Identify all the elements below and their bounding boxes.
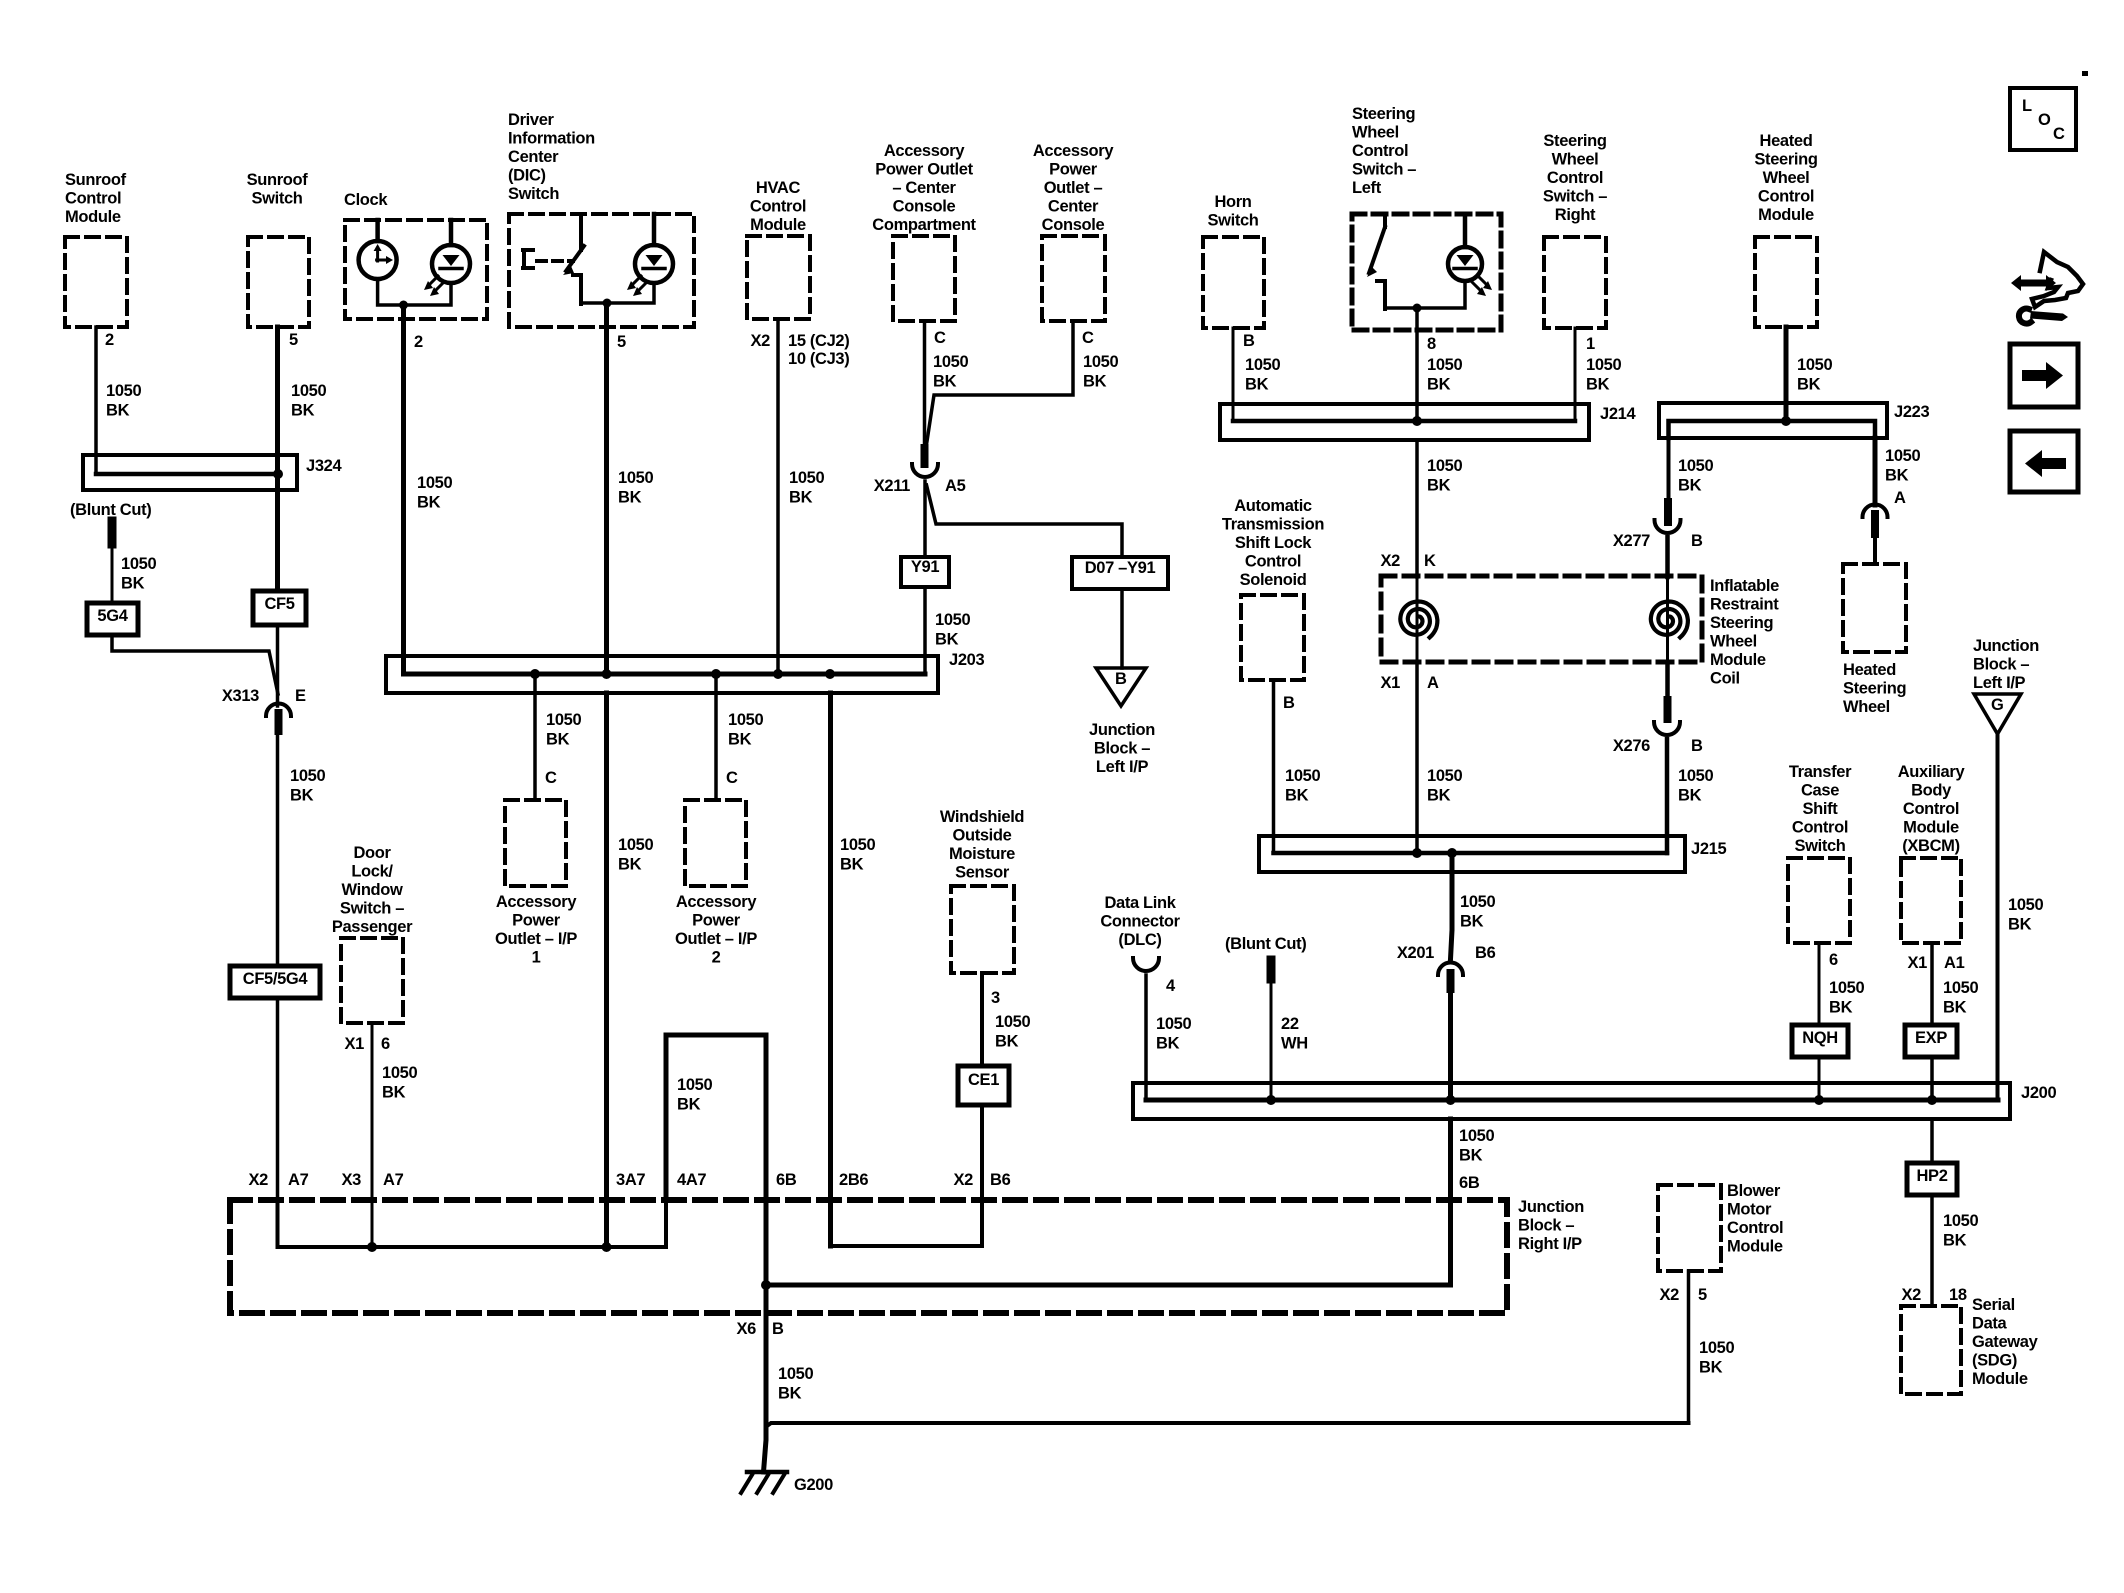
module label: Blower Motor Control Module [1727,1182,1783,1256]
svg-text:BK: BK [1885,467,1909,485]
module label: Accessory Power Outlet - Center Console Compartment [872,142,976,234]
svg-text:X2: X2 [751,332,771,350]
svg-text:C: C [1082,329,1094,347]
svg-text:BK: BK [1586,376,1610,394]
svg-text:Shift Lock: Shift Lock [1235,534,1312,552]
svg-text:BK: BK [546,731,570,749]
wire label 1050 BK (HVAC) [789,469,824,507]
wire: transfer case switch pin 6 to NQH [1818,943,1821,1025]
svg-text:BK: BK [121,575,145,593]
svg-text:5G4: 5G4 [97,607,128,625]
wire label 1050 BK (transfer case) [1829,979,1864,1017]
module label: Sunroof Switch [247,171,309,208]
svg-text:Module: Module [1758,206,1814,224]
pin label 2B6 [839,1171,868,1189]
svg-text:BK: BK [1699,1359,1723,1377]
svg-text:Wheel: Wheel [1352,124,1399,142]
DIC switch symbol [523,214,584,304]
wire: SWCS-right pin 1 to J214 [1574,328,1577,421]
coil spiral left [1400,602,1437,638]
svg-text:1050: 1050 [840,836,875,854]
svg-text:X2: X2 [954,1171,974,1189]
svg-text:X2: X2 [1660,1286,1680,1304]
svg-text:Switch: Switch [251,190,302,208]
svg-text:Case: Case [1801,782,1839,800]
svg-text:Compartment: Compartment [872,216,976,234]
svg-text:BK: BK [1829,999,1853,1017]
svg-text:J214: J214 [1600,405,1636,423]
svg-text:4: 4 [1166,977,1176,995]
svg-text:BK: BK [935,631,959,649]
connector A stub [1871,514,1879,534]
DLC connector arc [1133,958,1159,971]
svg-text:Control: Control [1727,1219,1783,1237]
J223 label [1894,403,1929,421]
svg-text:6: 6 [381,1035,390,1053]
connector X211 stub [921,448,929,464]
wire: heated module to J223 [1784,327,1789,421]
svg-text:D07 –Y91: D07 –Y91 [1085,559,1156,577]
svg-text:BK: BK [677,1096,701,1114]
svg-text:1050: 1050 [291,382,326,400]
J214 label [1600,405,1636,423]
svg-text:Control: Control [1903,800,1959,818]
wire label 1050 BK (DIC) [618,469,653,507]
junction block right I/P box [230,1200,1507,1313]
svg-text:CE1: CE1 [968,1071,999,1089]
svg-text:18: 18 [1949,1286,1967,1304]
svg-text:8: 8 [1427,335,1436,353]
svg-text:1050: 1050 [1083,353,1118,371]
svg-text:BK: BK [789,489,813,507]
svg-text:Switch –: Switch – [340,900,404,918]
svg-text:Outside: Outside [953,827,1012,845]
wire: loop 4A7 to 6B [666,1035,766,1200]
svg-text:2: 2 [712,949,721,967]
svg-text:Moisture: Moisture [949,845,1015,863]
wire: triangle G to J200 [1996,734,2000,1100]
svg-text:BK: BK [1427,787,1451,805]
svg-text:Switch: Switch [1794,837,1845,855]
svg-text:1050: 1050 [618,836,653,854]
pin labels X2 A7 [249,1171,309,1189]
svg-text:Heated: Heated [1843,661,1896,679]
clock symbol [359,220,397,279]
svg-text:Power: Power [512,912,561,930]
connector X211 labels [874,477,966,495]
wire: DIC pin 5 to J203 [604,303,609,674]
svg-text:Windshield: Windshield [940,808,1024,826]
module label: Steering Wheel Control Switch - Left [1352,105,1416,197]
svg-text:Accessory: Accessory [1033,142,1114,160]
svg-text:1050: 1050 [1678,457,1713,475]
svg-text:Control: Control [1245,553,1301,571]
junction block left I/P triangle G [1974,694,2021,734]
svg-text:Outlet – I/P: Outlet – I/P [675,930,757,948]
windshield outside moisture sensor box [951,886,1014,973]
svg-text:1050: 1050 [728,711,763,729]
J324 internal bus [96,472,278,477]
wire label 1050 BK (2B6 run) [840,836,875,874]
svg-text:Junction: Junction [1089,721,1155,739]
connector X277 stub [1664,502,1672,522]
module label: Heated Steering Wheel [1843,661,1906,716]
pin labels X1 6 [345,1035,390,1053]
module label: Driver Information Center (DIC) Switch [508,111,595,203]
wire label 1050 BK (X201 to J200) [1459,1127,1494,1165]
blunt cut stub (center) [1267,960,1276,979]
svg-text:O: O [2038,111,2051,129]
pin label 3A7 [616,1171,645,1189]
wire: DLC to J200 [1144,975,1148,1099]
svg-text:1050: 1050 [935,611,970,629]
wire: X276 to J215 [1665,739,1670,853]
wire: SWCS-left internal bottom [1385,281,1465,308]
svg-text:Accessory: Accessory [676,893,757,911]
svg-text:1050: 1050 [618,469,653,487]
accessory power outlet center console compartment box [893,236,955,321]
heated steering wheel control module box [1755,237,1817,327]
wire: coil X1-A to J215 [1415,662,1419,853]
module label: HVAC Control Module [750,179,806,234]
svg-text:B: B [1283,694,1295,712]
svg-text:CF5: CF5 [264,595,294,613]
wire label 1050 BK (SWCS-right) [1586,356,1621,394]
pin 2 label [105,331,114,349]
svg-text:1050: 1050 [1427,356,1462,374]
pin labels X1 A (coil bottom) [1381,674,1439,692]
svg-text:Driver: Driver [508,111,555,129]
svg-text:A: A [1894,489,1906,507]
svg-text:Console: Console [893,198,956,216]
svg-text:1050: 1050 [1885,447,1920,465]
svg-text:Switch –: Switch – [1352,161,1416,179]
svg-text:Gateway: Gateway [1972,1333,2039,1351]
pin 3 label (sensor) [991,989,1000,1007]
svg-text:Data: Data [1972,1315,2008,1333]
svg-text:1050: 1050 [1427,457,1462,475]
wire: J200 to HP2 [1930,1119,1934,1163]
wire: blunt cut to J200 [1270,979,1273,1100]
svg-text:Wheel: Wheel [1552,151,1599,169]
svg-text:Control: Control [65,190,121,208]
auxiliary body control module box [1901,858,1961,943]
wire label 1050 BK (sunroof switch) [291,382,326,420]
svg-text:BK: BK [382,1084,406,1102]
connector X201 arc [1438,963,1463,976]
svg-text:1050: 1050 [417,474,452,492]
back arrow box [2010,431,2078,492]
svg-text:Wheel: Wheel [1843,698,1890,716]
svg-text:A7: A7 [288,1171,309,1189]
junction dot J214 [1412,416,1422,426]
svg-text:Heated: Heated [1760,132,1813,150]
serial data gateway module box [1901,1306,1961,1394]
svg-text:Module: Module [1972,1370,2028,1388]
wire label 1050 BK (below J214) [1427,457,1462,495]
label: Junction Block - Left I/P (B) [1089,721,1155,776]
svg-text:6: 6 [1829,951,1838,969]
svg-text:Body: Body [1911,782,1952,800]
svg-text:Wheel: Wheel [1763,169,1810,187]
svg-text:BK: BK [618,856,642,874]
svg-text:(XBCM): (XBCM) [1902,837,1959,855]
svg-text:2B6: 2B6 [839,1171,868,1189]
wire: door lock switch to junction block X3-A7 [371,1023,374,1247]
svg-text:BK: BK [1943,999,1967,1017]
svg-text:B6: B6 [1475,944,1496,962]
junction dot (clock) [399,301,408,310]
svg-text:A1: A1 [1944,954,1965,972]
svg-text:L: L [2022,97,2032,115]
connector X277 arc [1655,520,1681,533]
heated steering wheel box [1843,564,1906,652]
svg-text:1050: 1050 [121,555,156,573]
svg-text:1050: 1050 [1678,767,1713,785]
label: Junction Block - Left I/P (G) [1973,637,2039,692]
svg-text:1050: 1050 [677,1076,712,1094]
wire: connector A to heated steering wheel [1873,534,1877,564]
svg-text:Data Link: Data Link [1104,894,1176,912]
svg-text:BK: BK [1427,477,1451,495]
svg-text:Junction: Junction [1973,637,2039,655]
junction block left I/P triangle B [1096,668,1146,706]
svg-text:BK: BK [2008,916,2032,934]
junction dot (DIC) [603,299,612,308]
wire label 1050 BK (heated wheel run) [1885,447,1920,485]
svg-text:Control: Control [1547,169,1603,187]
svg-text:5: 5 [1698,1286,1707,1304]
svg-text:BK: BK [840,856,864,874]
wire: ground run to blower motor [767,1423,1689,1426]
svg-text:1: 1 [1586,335,1595,353]
wire label 1050 BK (compartment) [933,353,968,391]
connector X201 stub [1447,973,1455,989]
svg-text:Coil: Coil [1710,670,1740,688]
svg-text:1050: 1050 [2008,896,2043,914]
wire label 1050 BK (sunroof control module) [106,382,141,420]
svg-text:Inflatable: Inflatable [1710,577,1779,595]
svg-text:BK: BK [778,1385,802,1403]
pin labels X2 B6 (sensor) [954,1171,1011,1189]
svg-text:BK: BK [618,489,642,507]
junction dot J223 [1781,416,1791,426]
svg-text:Module: Module [750,216,806,234]
svg-text:1050: 1050 [933,353,968,371]
junction dot 6B bus [761,1280,771,1290]
pin label 6B (X201 run) [1459,1174,1480,1192]
HVAC control module box [747,236,810,319]
horn switch box [1203,237,1264,328]
wire through left coil [1416,577,1419,662]
svg-text:Control: Control [750,198,806,216]
svg-text:Sensor: Sensor [955,864,1010,882]
label: Junction Block - Right I/P [1518,1198,1584,1253]
svg-text:(Blunt Cut): (Blunt Cut) [1225,935,1306,953]
svg-text:Left I/P: Left I/P [1096,758,1149,776]
svg-text:Left I/P: Left I/P [1973,674,2026,692]
blower motor control module box [1658,1185,1721,1271]
svg-text:Accessory: Accessory [496,893,577,911]
splice HP2 box [1907,1163,1957,1195]
junction dot J324 [273,469,283,479]
svg-text:1050: 1050 [1699,1339,1734,1357]
steering wheel control switch left box [1352,214,1501,330]
svg-text:Blower: Blower [1727,1182,1781,1200]
svg-text:J215: J215 [1691,840,1726,858]
svg-text:1: 1 [532,949,541,967]
wire: J214 to steering wheel coil X2-K [1415,440,1419,577]
svg-text:Connector: Connector [1100,913,1180,931]
svg-text:Module: Module [1903,819,1959,837]
pin B label (horn) [1243,332,1255,350]
wire: SWCS-left pin 8 to J214 [1415,308,1419,421]
wire label 1050 BK (below X313) [290,767,325,805]
junction block internal 6B bus [766,1200,1451,1285]
wire: blunt cut to 5G4 [111,544,114,603]
pin label 4A7 [677,1171,706,1189]
svg-text:1050: 1050 [1245,356,1280,374]
svg-text:BK: BK [1678,787,1702,805]
pin 1 label [1586,335,1595,353]
sunroof switch box [248,237,309,327]
transfer case shift control switch box [1788,858,1850,943]
svg-text:Clock: Clock [344,191,388,209]
accessory power outlet center console box [1042,236,1105,321]
module label: Auxiliary Body Control Module (XBCM) [1898,763,1966,855]
svg-text:Junction: Junction [1518,1198,1584,1216]
svg-text:Passenger: Passenger [332,918,413,936]
svg-text:B: B [1115,670,1127,688]
svg-text:Center: Center [508,148,559,166]
pin labels X2 18 (SDG) [1902,1286,1967,1304]
module label: Accessory Power Outlet - Center Console [1033,142,1114,234]
svg-text:BK: BK [1156,1035,1180,1053]
J203 label [949,651,984,669]
wire: J203 to outlet I/P 2 [714,674,718,800]
forward arrow box [2010,344,2078,407]
svg-text:4A7: 4A7 [677,1171,706,1189]
svg-text:Block –: Block – [1518,1217,1574,1235]
junction dots J203 [530,669,835,679]
wire: sunroof control module pin 2 to J324 [96,327,276,474]
splice CF5/5G4 box [230,966,320,998]
svg-text:1050: 1050 [995,1013,1030,1031]
svg-text:X211: X211 [874,477,910,495]
svg-text:1050: 1050 [1156,1015,1191,1033]
svg-text:5: 5 [289,331,298,349]
wire: X277 to coil box [1665,537,1670,577]
svg-text:2: 2 [105,331,114,349]
connector X313 labels [222,687,306,705]
wire label 1050 BK (sensor) [995,1013,1030,1051]
svg-text:Steering: Steering [1543,132,1606,150]
wire: J203 to outlet I/P 1 [533,674,537,800]
pin labels X2 K (coil top) [1381,552,1436,570]
J200 internal bus [1146,1098,1998,1103]
wire label 1050 BK (outlet I/P 2) [728,711,763,749]
connector A arc [1863,505,1888,518]
wire label 1050 BK (ground) [778,1365,813,1403]
J215 label [1691,840,1726,858]
svg-text:Door: Door [353,844,391,862]
wire label 1050 BK (solenoid) [1285,767,1320,805]
tiny page mark [2082,71,2088,76]
svg-text:BK: BK [1245,376,1269,394]
svg-text:BK: BK [1678,477,1702,495]
svg-text:(DLC): (DLC) [1118,931,1161,949]
wire label 1050 BK (horn) [1245,356,1280,394]
svg-text:Block –: Block – [1094,740,1150,758]
wire: DIC branch J203 to junction block 3A7 [604,693,609,1247]
connector X313 stub [275,713,283,731]
module label: Automatic Transmission Shift Lock Control Solenoid [1222,497,1324,589]
svg-text:3A7: 3A7 [616,1171,645,1189]
svg-text:X2: X2 [1381,552,1401,570]
accessory power outlet I/P 2 box [685,800,746,886]
J223 internal bus [1669,421,1876,438]
pin labels X2 / 15 (CJ2) / 10 (CJ3) [751,332,850,368]
splice CE1 box [958,1066,1009,1105]
svg-text:Module: Module [1727,1238,1783,1256]
wire: X313 to CF5/5G4 [276,731,280,966]
wire: EXP to J200 [1930,1057,1934,1100]
svg-text:1050: 1050 [546,711,581,729]
clock LED symbol [424,220,470,296]
svg-text:J200: J200 [2021,1084,2056,1102]
svg-text:1050: 1050 [1943,1212,1978,1230]
module label: Steering Wheel Control Switch - Right [1543,132,1607,224]
svg-text:C: C [2053,125,2065,143]
pin label 6B (left) [776,1171,797,1189]
svg-text:BK: BK [417,494,441,512]
module label: Serial Data Gateway (SDG) Module [1972,1296,2039,1388]
J200 label [2021,1084,2056,1102]
pin B label (solenoid) [1283,694,1295,712]
svg-text:Auxiliary: Auxiliary [1898,763,1966,781]
svg-text:CF5/5G4: CF5/5G4 [243,970,309,988]
G200 label [794,1476,833,1494]
svg-text:Steering: Steering [1754,151,1817,169]
svg-text:Outlet – I/P: Outlet – I/P [495,930,577,948]
module label: Door Lock/Window Switch - Passenger [332,844,413,936]
svg-text:A5: A5 [945,477,966,495]
svg-text:NQH: NQH [1802,1029,1838,1047]
svg-text:X276: X276 [1613,737,1650,755]
svg-text:Sunroof: Sunroof [247,171,309,189]
pin C label (compartment) [934,329,946,347]
svg-text:BK: BK [933,373,957,391]
accessory power outlet I/P 1 box [505,800,566,886]
connector X277 labels [1613,532,1703,550]
svg-text:(Blunt Cut): (Blunt Cut) [70,501,151,519]
wire: X211 branch to D07-Y91 [927,485,1123,557]
junction block internal A7 bus [278,1200,667,1247]
junction J223 bar [1659,403,1887,438]
svg-text:15 (CJ2): 15 (CJ2) [788,332,849,350]
svg-text:B: B [772,1320,784,1338]
svg-text:6B: 6B [1459,1174,1480,1192]
module label: Accessory Power Outlet - I/P 1 [495,893,577,967]
svg-text:– Center: – Center [892,179,956,197]
splice CF5 box [253,591,306,625]
svg-text:Motor: Motor [1727,1201,1772,1219]
wire label 1050 BK (XBCM) [1943,979,1978,1017]
wire label 1050 BK (console) [1083,353,1118,391]
wire: J215 to X201 [1451,853,1453,959]
junction dot (SWCS-left) [1413,304,1422,313]
svg-text:BK: BK [1460,913,1484,931]
